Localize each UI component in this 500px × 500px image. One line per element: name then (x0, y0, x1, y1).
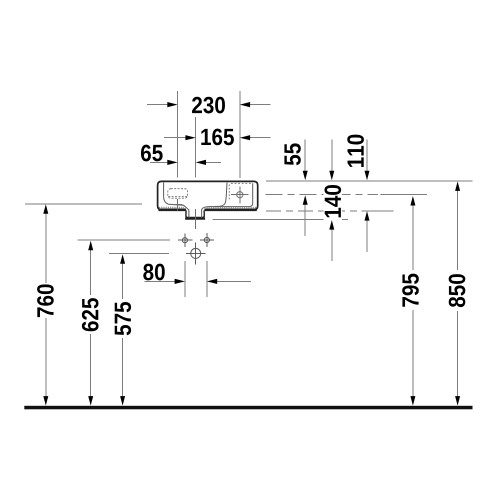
washbasin inner bowl outline (left) (164, 183, 213, 217)
faucet hole cross with circle (231, 186, 249, 203)
dimension 795 (402, 196, 419, 406)
dimension 575 (115, 254, 131, 405)
floor line (24, 406, 472, 410)
washbasin outer outline (front view) (158, 181, 258, 218)
dimension 165 (164, 129, 270, 146)
drain flange bottom line (right side) (212, 219, 348, 221)
extension line C (faucet centre) (239, 91, 241, 178)
value label 140 (324, 185, 341, 217)
dimension 140 (324, 140, 343, 261)
extension line B (drain centre) (195, 117, 197, 177)
drain centreline below basin (195, 209, 197, 229)
leader line at hidden hole height (left) (25, 203, 142, 205)
value label 55 (284, 143, 300, 165)
extension line A (hidden hole centre) (177, 91, 179, 177)
right mounting hole cross (200, 233, 214, 247)
value label 110 (347, 135, 364, 167)
drain inner walls (189, 211, 202, 217)
leader line at mounting hole height (left) (78, 239, 171, 241)
dimension 55 (284, 140, 307, 236)
dimension 80 (143, 261, 251, 297)
hidden overflow recess (dashed rounded rect in bowl) (168, 189, 188, 199)
dimension 110 (347, 135, 369, 252)
gray shading strip along basin bottom (159, 207, 256, 209)
value label 625 (82, 298, 99, 331)
value label 65 (141, 145, 163, 162)
value label 850 (449, 274, 466, 307)
dimension 65 (141, 145, 221, 165)
dimension 760 (37, 204, 54, 405)
leader line at drain pipe height (left) (109, 253, 169, 255)
value label 165 (201, 129, 234, 146)
value label 795 (402, 274, 419, 307)
faucet platform outline (right) (212, 183, 252, 207)
basin bottom dashed line (right side) (266, 210, 358, 212)
value label 760 (37, 284, 54, 317)
dimension 230 (147, 97, 270, 114)
dimension 625 (82, 241, 99, 406)
left mounting hole cross (178, 233, 192, 247)
hidden hole centre cross (left, in bowl) (172, 199, 182, 211)
value label 80 (143, 264, 165, 281)
value label 575 (115, 302, 131, 335)
rim height reference line (top, right side) (266, 180, 473, 182)
faucet height dashed line (right side) (266, 194, 378, 196)
drain pipe circle (186, 242, 206, 264)
dimension 850 (449, 181, 466, 405)
value label 230 (192, 97, 225, 114)
